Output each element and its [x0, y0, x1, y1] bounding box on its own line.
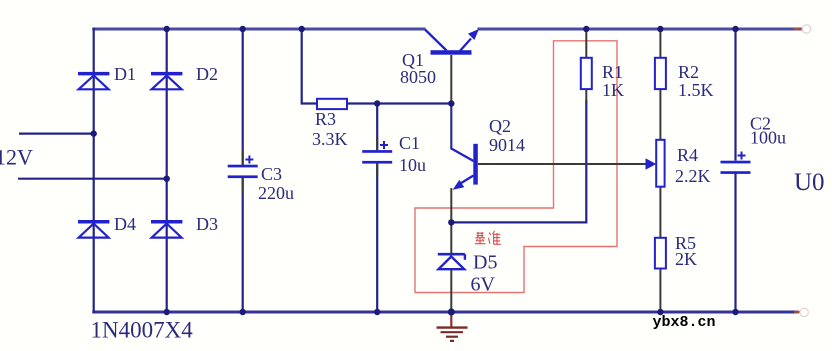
lead R5 bottom to rail: [659, 269, 661, 313]
wire R4 wiper from Q2 base: [478, 163, 647, 165]
svg-text:C3: C3: [261, 164, 282, 184]
lead C3 bottom stub: [242, 178, 244, 194]
wire C2 branch lower: [734, 172, 736, 312]
node REF highlight loop (red): [415, 41, 617, 293]
wire Q1 base node to Q2 collector: [450, 104, 452, 150]
diode D1: [78, 72, 109, 89]
svg-text:10u: 10u: [399, 155, 426, 175]
zener diode D5: [438, 254, 465, 269]
junction bottom rail / D3 leg: [164, 309, 170, 315]
junction bottom rail / C3: [240, 309, 246, 315]
junction top rail / C3: [240, 26, 246, 32]
svg-text:C1: C1: [399, 133, 420, 153]
svg-text:R1: R1: [602, 62, 623, 82]
wire C1 upper lead: [376, 104, 378, 151]
node output terminal bottom (U0 -): [794, 308, 808, 316]
wire 12V upper input: [19, 133, 94, 135]
lead Q1 base: [450, 55, 452, 104]
junction R3 line / C1: [374, 100, 380, 106]
svg-text:220u: 220u: [258, 183, 294, 203]
svg-text:6V: 6V: [471, 274, 496, 296]
svg-text:D2: D2: [196, 64, 218, 84]
svg-text:R4: R4: [677, 145, 698, 165]
resistor R1: [581, 58, 592, 89]
junction 12V upper / left leg: [91, 130, 97, 136]
svg-text:R3: R3: [315, 109, 336, 129]
svg-text:1N4007X4: 1N4007X4: [91, 318, 194, 343]
lead R4 bottom to R5 top: [659, 187, 661, 238]
wire bottom rail: [92, 311, 797, 314]
wire C1 lower lead: [376, 162, 378, 312]
lead D5 anode: [450, 269, 452, 312]
svg-text:9014: 9014: [489, 135, 525, 155]
wire R3 feed from top rail: [302, 29, 317, 104]
wire R3 output to C1 and Q1 base node: [347, 102, 451, 104]
junction top rail / D2 leg: [164, 26, 170, 32]
wire C3 branch lower: [242, 178, 244, 313]
svg-text:8050: 8050: [400, 67, 436, 87]
resistor R5: [655, 238, 666, 269]
svg-text:D1: D1: [114, 64, 136, 84]
svg-text:Q2: Q2: [489, 116, 511, 136]
junction Q2 emitter / D5 / R1: [448, 219, 454, 225]
junction R3 line / Q1 base: [448, 100, 454, 106]
svg-text:12V: 12V: [0, 145, 33, 170]
svg-text:2K: 2K: [675, 249, 697, 269]
ground: [437, 312, 468, 341]
junction bottom rail / ground: [448, 308, 455, 315]
potentiometer R4: [646, 140, 665, 187]
wire right bridge leg: [166, 29, 168, 312]
transistor Q2: [451, 144, 478, 190]
svg-text:1.5K: 1.5K: [678, 80, 714, 100]
node output terminal top (U0 +): [794, 25, 811, 33]
wire left bridge leg: [93, 28, 95, 314]
wire C2 branch upper: [734, 29, 736, 161]
capacitor C1: [362, 141, 392, 164]
label 基准 (reference) red: [475, 231, 501, 245]
svg-text:D4: D4: [114, 214, 136, 234]
capacitor C2: [721, 152, 751, 174]
lead R2 bottom to R4 top: [659, 89, 661, 140]
lead C1 bottom stub: [376, 162, 378, 177]
diode D3: [151, 220, 182, 238]
svg-text:D5: D5: [473, 252, 497, 274]
lead R2 top: [659, 29, 661, 58]
junction bottom rail / C2: [732, 309, 738, 315]
svg-text:100u: 100u: [750, 128, 786, 148]
resistor R3: [317, 99, 347, 109]
lead D5 cathode: [450, 222, 452, 254]
junction top rail / C2: [732, 26, 738, 32]
junction top rail / R1: [583, 26, 589, 32]
junction top rail / R3 feed: [299, 26, 305, 32]
junction top rail / R2: [657, 26, 663, 32]
wire Q2 emitter node to R1 bottom: [451, 100, 586, 222]
junction bottom rail / C1: [374, 309, 380, 315]
wire top rail left segment: [92, 28, 425, 31]
svg-text:U0: U0: [794, 169, 825, 196]
svg-text:R2: R2: [678, 62, 699, 82]
diode D2: [151, 72, 182, 89]
lead Q2 emitter to node: [450, 188, 452, 222]
wire 12V lower input: [18, 178, 167, 180]
resistor R2: [655, 58, 666, 89]
lead C1 top stub: [376, 138, 378, 150]
svg-text:ybx8.cn: ybx8.cn: [653, 314, 716, 331]
junction 12V lower / right leg: [164, 176, 170, 182]
junction bottom rail / R5: [657, 309, 663, 315]
svg-text:1K: 1K: [602, 80, 624, 100]
wire top rail right segment: [478, 28, 802, 31]
svg-text:D3: D3: [196, 214, 218, 234]
lead R1 top: [585, 29, 587, 58]
lead R1 bottom stub: [585, 89, 587, 104]
svg-text:2.2K: 2.2K: [675, 166, 711, 186]
diode D4: [78, 220, 109, 238]
lead C3 top stub: [242, 150, 244, 165]
wire C3 branch upper: [242, 29, 244, 165]
transistor Q1: [425, 29, 479, 55]
capacitor C3: [228, 156, 258, 179]
svg-text:3.3K: 3.3K: [312, 129, 348, 149]
